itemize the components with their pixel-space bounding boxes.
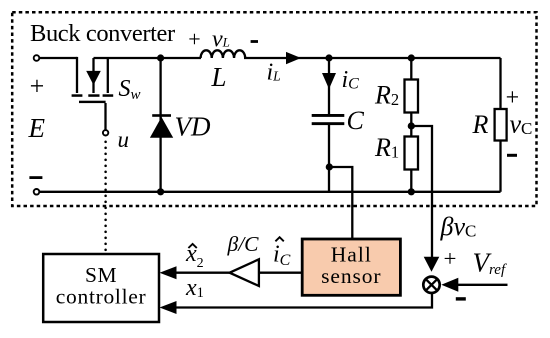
svg-text:β/C: β/C [227, 232, 260, 256]
resistor R2 [405, 80, 419, 113]
resistor R1 [405, 137, 419, 170]
svg-text:Buck converter: Buck converter [30, 20, 175, 47]
svg-text:sensor: sensor [321, 264, 381, 288]
wire: tap to Hall sensor [329, 167, 352, 239]
svg-text:+: + [188, 26, 200, 51]
node: divider top junction [408, 54, 415, 61]
wire: switch source to top rail [94, 57, 202, 59]
svg-text:+: + [30, 72, 45, 101]
wire: divider tap to summing junction (beta*vC) [411, 126, 432, 257]
capacitor C plates [312, 114, 345, 117]
label: - (vL polarity) [251, 40, 258, 43]
Hall sensor block [302, 239, 400, 295]
wire: dotted control line u to SM controller [104, 142, 107, 253]
node: diode to ground rail junction [157, 188, 164, 195]
svg-text:u: u [118, 127, 130, 152]
svg-text:Hall: Hall [331, 243, 372, 267]
wire: amplifier to SM controller (x2 estimate) [176, 272, 230, 274]
diode VD cathode bar [152, 114, 171, 117]
label: - (vC polarity) [507, 154, 517, 157]
node: gate control terminal u [103, 130, 108, 135]
wire: R2 to R1 [410, 113, 412, 137]
svg-text:+: + [506, 85, 520, 111]
svg-text:+: + [444, 246, 457, 271]
node A: diode junction [157, 54, 164, 61]
node: - input terminal [34, 189, 40, 195]
transistor Sw drain lead [76, 57, 78, 93]
wire: Vref into summing junction [458, 284, 508, 286]
node: Hall sensor tap junction [326, 163, 333, 170]
arrow: into SM controller x1 input [160, 301, 177, 314]
svg-text:VD: VD [175, 112, 211, 142]
wire: ground return rail [40, 191, 501, 193]
wire: top rail to R2 [410, 58, 412, 80]
arrow: iL current direction [286, 52, 301, 64]
dashed boundary box of buck converter [12, 12, 536, 206]
wire: Hall sensor to amplifier [259, 272, 302, 274]
transistor Sw source lead [107, 58, 109, 93]
label: - (summing sign) [456, 297, 466, 300]
arrow: beta*vC into summing junction [424, 257, 440, 272]
wire: right branch bottom [499, 141, 501, 192]
amplifier beta/C triangle [230, 259, 259, 286]
summing junction circle with X [423, 277, 439, 293]
SM controller block [43, 254, 159, 322]
diode VD triangle [150, 117, 173, 138]
arrow: iC current direction [322, 73, 336, 89]
inductor L coil [201, 50, 246, 58]
wire: R1 to ground rail [410, 170, 412, 192]
arrow: into SM controller x2 input [160, 266, 177, 279]
svg-text:R: R [472, 110, 489, 139]
transistor Sw gate bar [79, 101, 106, 103]
wire: + terminal to switch drain [40, 57, 77, 59]
svg-text:C: C [347, 106, 365, 135]
transistor Sw body lead with arrow [92, 58, 94, 93]
wire: capacitor branch lower [328, 125, 330, 192]
wire: right branch top [499, 58, 501, 109]
node: divider bottom junction [408, 188, 415, 195]
svg-text:L: L [211, 62, 227, 92]
svg-text:SM: SM [85, 263, 117, 287]
hat accent over i [275, 237, 283, 241]
node: divider mid junction [408, 122, 415, 129]
label: - (source polarity) [29, 176, 42, 179]
wire: inductor to output node [244, 57, 501, 59]
svg-text:controller: controller [56, 285, 147, 309]
hat accent over x [188, 244, 196, 248]
wire: diode branch vertical [159, 58, 161, 192]
transistor Sw channel pads [72, 94, 83, 97]
wire: capacitor branch upper [328, 58, 330, 114]
wire: summing junction output to SM controller (x1) [176, 294, 432, 308]
wire: gate lead down [104, 103, 106, 130]
svg-text:E: E [28, 113, 46, 143]
node B: capacitor branch junction [325, 54, 332, 61]
arrow: Vref into summing junction [441, 278, 458, 292]
node: + input terminal [34, 55, 40, 61]
resistor R load [495, 109, 507, 141]
